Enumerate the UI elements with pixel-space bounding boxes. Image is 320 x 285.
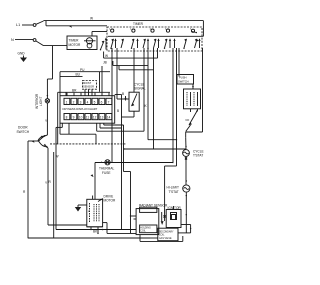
svg-text:2: 2 [73, 100, 75, 104]
svg-text:1: 1 [66, 100, 68, 104]
svg-text:11: 11 [86, 116, 90, 120]
svg-text:COIL: COIL [159, 235, 165, 237]
svg-text:10: 10 [79, 116, 83, 120]
svg-text:FUSE: FUSE [102, 171, 111, 175]
svg-text:T'STAT: T'STAT [193, 154, 203, 158]
svg-text:N: N [11, 38, 14, 42]
svg-text:GND: GND [18, 52, 26, 56]
svg-text:HOLDING: HOLDING [140, 228, 151, 230]
svg-text:MOTOR: MOTOR [104, 199, 117, 203]
svg-text:COIL: COIL [140, 231, 146, 233]
svg-text:6: 6 [101, 100, 103, 104]
svg-text:W: W [56, 155, 59, 159]
svg-text:SENSOR: SENSOR [83, 85, 94, 89]
svg-text:9: 9 [73, 116, 75, 120]
svg-text:BR: BR [72, 89, 77, 93]
svg-text:W: W [90, 17, 93, 21]
svg-text:SECONDARY: SECONDARY [159, 231, 174, 234]
svg-text:GAS VALVE: GAS VALVE [159, 237, 172, 240]
svg-text:SWITCH: SWITCH [178, 79, 189, 83]
svg-text:5: 5 [94, 100, 96, 104]
svg-text:L1: L1 [16, 23, 20, 27]
svg-text:W: W [105, 54, 108, 58]
svg-text:TIMER: TIMER [133, 22, 144, 26]
svg-text:B: B [117, 109, 119, 113]
svg-text:DRYNESS DISPLAY/CHART: DRYNESS DISPLAY/CHART [63, 107, 98, 111]
svg-text:LIGHT: LIGHT [39, 97, 43, 106]
svg-text:BU: BU [76, 73, 81, 77]
svg-text:NO: NO [186, 119, 190, 122]
svg-text:4: 4 [87, 100, 89, 104]
svg-text:JB: JB [103, 61, 107, 65]
svg-text:MOIST: MOIST [83, 81, 92, 85]
svg-text:B: B [122, 92, 124, 96]
svg-text:PUSH: PUSH [179, 76, 187, 80]
svg-text:7: 7 [108, 100, 110, 104]
svg-text:SWITCH: SWITCH [17, 130, 30, 134]
svg-text:T'STAT: T'STAT [169, 190, 179, 194]
svg-text:SIGNAL: SIGNAL [134, 87, 146, 91]
svg-text:3: 3 [80, 100, 82, 104]
svg-text:MOTOR: MOTOR [69, 43, 82, 47]
svg-text:M: M [88, 211, 90, 213]
svg-text:8: 8 [66, 116, 68, 120]
svg-text:13: 13 [100, 116, 104, 120]
svg-text:12: 12 [93, 116, 97, 120]
svg-text:14: 14 [107, 116, 111, 120]
